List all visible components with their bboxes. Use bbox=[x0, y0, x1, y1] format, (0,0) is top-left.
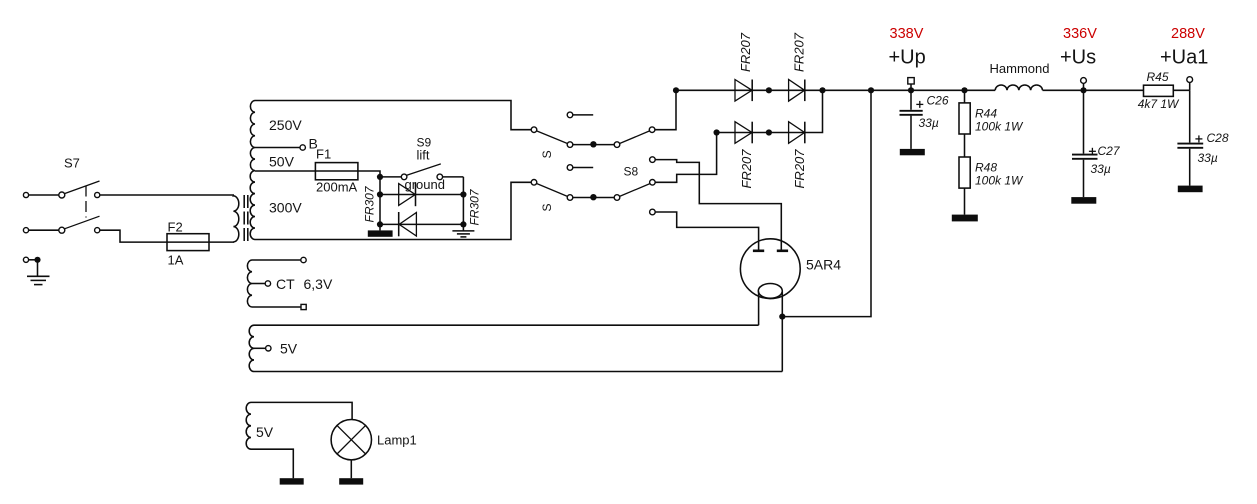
wire 5V winding bottom bbox=[254, 371, 782, 373]
tube 5AR4 filament bbox=[758, 284, 782, 299]
mains earth terminal bbox=[23, 257, 40, 263]
fuse F1 bbox=[315, 147, 358, 195]
switch S8 contact 2 and wire to rectifier row2 bbox=[650, 133, 717, 186]
wire lamp winding top to lamp bbox=[251, 402, 352, 419]
svg-text:+Us: +Us bbox=[1060, 47, 1096, 69]
svg-text:FR207: FR207 bbox=[738, 32, 753, 72]
svg-text:S: S bbox=[540, 150, 554, 158]
wire secondary top to selector bbox=[255, 101, 531, 130]
chassis ground bar (lamp) bbox=[339, 478, 363, 484]
selector switch upper bbox=[531, 112, 655, 147]
svg-text:Lamp1: Lamp1 bbox=[377, 433, 417, 448]
svg-text:338V: 338V bbox=[890, 26, 924, 42]
switch S7 pole 1 bbox=[23, 181, 99, 198]
wire upper selector to rectifier row1 bbox=[655, 90, 676, 129]
wire lamp winding bottom to chassis ground bbox=[251, 449, 293, 478]
resistor R45 bbox=[1138, 70, 1180, 111]
svg-text:100k 1W: 100k 1W bbox=[975, 119, 1024, 133]
lift network left rail bbox=[377, 174, 383, 231]
diode FR207 D3 bbox=[735, 122, 752, 144]
rail choke to R45 bbox=[1043, 89, 1144, 91]
terminal +Us (round) bbox=[1081, 78, 1087, 91]
wire S7 pole2 to fuse F2 bbox=[100, 230, 167, 242]
chassis ground bar (C26) bbox=[900, 149, 925, 155]
rectifier row2 rail bbox=[717, 90, 823, 132]
wire filament right / output node bbox=[779, 90, 871, 371]
svg-text:R44: R44 bbox=[975, 106, 997, 120]
switch S7 mechanical link (dashed) bbox=[85, 186, 87, 218]
node R44 bbox=[961, 87, 967, 93]
wire 6.3V top terminal bbox=[252, 257, 306, 262]
earth ground symbol (lift network) bbox=[452, 231, 474, 237]
node rectifier row2 input bbox=[714, 129, 720, 135]
selector switch lower bbox=[531, 165, 650, 201]
resistor R48 bbox=[959, 157, 1024, 188]
tap 5V bbox=[254, 341, 298, 357]
svg-text:33µ: 33µ bbox=[1091, 162, 1111, 176]
svg-text:R45: R45 bbox=[1147, 70, 1169, 84]
svg-text:FR307: FR307 bbox=[467, 188, 481, 225]
terminal +Up (square) bbox=[908, 78, 914, 91]
chassis ground bar (C28) bbox=[1178, 186, 1203, 193]
transformer 6.3V winding bbox=[247, 260, 252, 307]
wire secondary bottom to selector bbox=[255, 182, 531, 239]
tube 5AR4 left plate bbox=[753, 250, 764, 253]
svg-text:S: S bbox=[540, 203, 554, 211]
svg-text:33µ: 33µ bbox=[919, 116, 939, 130]
node tube output to rail bbox=[868, 87, 874, 93]
svg-text:6,3V: 6,3V bbox=[304, 276, 333, 292]
lamp Lamp1 bbox=[331, 420, 417, 460]
switch S7 pole 2 bbox=[23, 216, 99, 233]
terminal +Ua1 (round) bbox=[1187, 77, 1193, 91]
tap B bbox=[255, 136, 318, 152]
svg-text:lift: lift bbox=[417, 147, 430, 162]
chassis ground bar (C27) bbox=[1071, 197, 1096, 204]
svg-text:R48: R48 bbox=[975, 161, 997, 175]
transformer 5V winding (rectifier heater) bbox=[249, 325, 254, 371]
svg-text:5V: 5V bbox=[280, 341, 298, 357]
svg-text:C26: C26 bbox=[927, 94, 949, 108]
svg-text:+Up: +Up bbox=[889, 47, 926, 69]
rectifier row1 rail bbox=[676, 89, 995, 91]
inductor Hammond choke bbox=[995, 85, 1042, 90]
svg-text:C27: C27 bbox=[1098, 144, 1121, 158]
tube 5AR4 right plate bbox=[777, 250, 788, 253]
wire 5V winding top bbox=[254, 324, 759, 326]
chassis ground bar (lamp winding) bbox=[280, 478, 304, 484]
wire R48 to ground bbox=[964, 188, 966, 215]
svg-text:C28: C28 bbox=[1207, 131, 1229, 145]
svg-text:250V: 250V bbox=[269, 117, 302, 133]
capacitor C28 bbox=[1177, 90, 1228, 185]
svg-text:300V: 300V bbox=[269, 200, 302, 216]
capacitor C27 bbox=[1072, 90, 1121, 197]
node C26 bbox=[908, 87, 914, 93]
diode FR307 lower (anode right) bbox=[380, 212, 463, 236]
svg-text:FR307: FR307 bbox=[363, 185, 377, 222]
svg-text:100k 1W: 100k 1W bbox=[975, 173, 1024, 187]
wire 50V tap to fuse F1 and lift network bbox=[255, 171, 380, 177]
chassis ground bar (lift network) bbox=[368, 230, 393, 236]
rectifier tube 5AR4 envelope bbox=[740, 239, 800, 299]
svg-text:33µ: 33µ bbox=[1198, 151, 1218, 165]
svg-text:5AR4: 5AR4 bbox=[806, 257, 841, 273]
wire lamp to chassis ground bbox=[350, 460, 352, 478]
wire 6.3V bottom terminal (square) bbox=[252, 304, 306, 309]
svg-text:FR207: FR207 bbox=[739, 149, 754, 189]
resistor R44 bbox=[959, 90, 1024, 134]
svg-text:FR207: FR207 bbox=[792, 32, 807, 72]
node rectifier row1 input bbox=[673, 87, 679, 93]
switch S9 bbox=[380, 135, 463, 192]
transformer primary winding bbox=[233, 195, 238, 242]
svg-text:50V: 50V bbox=[269, 154, 295, 170]
fuse F2 bbox=[167, 220, 234, 268]
svg-text:CT: CT bbox=[276, 276, 295, 292]
diode FR207 D1 bbox=[735, 80, 752, 102]
svg-text:S8: S8 bbox=[624, 164, 639, 178]
wire R44 to R48 bbox=[964, 134, 966, 157]
tap CT bbox=[252, 276, 295, 292]
lift network right rail bbox=[460, 177, 466, 231]
node between D1 D2 bbox=[766, 87, 772, 93]
diode FR207 D2 bbox=[789, 80, 805, 102]
node between D3 D4 bbox=[766, 129, 772, 135]
svg-text:4k7 1W: 4k7 1W bbox=[1138, 97, 1180, 111]
svg-text:200mA: 200mA bbox=[316, 179, 358, 194]
transformer secondary winding (250V/50V/300V) bbox=[250, 101, 255, 240]
svg-text:+Ua1: +Ua1 bbox=[1160, 47, 1208, 69]
diode FR307 upper (anode left) bbox=[380, 183, 463, 207]
switch S8 contact 1 and wire to tube right plate bbox=[650, 157, 782, 250]
wire filament left to 5V winding top bbox=[758, 292, 760, 326]
svg-text:288V: 288V bbox=[1171, 26, 1205, 42]
svg-text:Hammond: Hammond bbox=[990, 61, 1050, 76]
svg-text:F1: F1 bbox=[316, 147, 331, 162]
earth ground symbol bbox=[27, 260, 50, 285]
rail R45 to +Ua1 bbox=[1173, 89, 1189, 91]
switch S8 contact 3 and wire to tube left plate bbox=[650, 209, 759, 250]
transformer core bbox=[244, 195, 248, 242]
svg-text:1A: 1A bbox=[168, 253, 184, 268]
capacitor C26 bbox=[900, 90, 949, 149]
svg-text:5V: 5V bbox=[256, 424, 274, 440]
chassis ground bar (R48) bbox=[952, 215, 978, 222]
svg-text:336V: 336V bbox=[1063, 26, 1097, 42]
wire S7 pole1 to transformer primary top bbox=[100, 194, 234, 196]
transformer 5V lamp winding bbox=[246, 402, 251, 449]
diode FR207 D4 bbox=[789, 122, 805, 144]
svg-text:FR207: FR207 bbox=[792, 149, 807, 189]
node +Us / C27 bbox=[1080, 87, 1086, 93]
svg-text:F2: F2 bbox=[168, 220, 183, 235]
svg-text:S7: S7 bbox=[64, 156, 80, 171]
node rectifier output join bbox=[819, 87, 825, 93]
svg-text:ground: ground bbox=[405, 177, 445, 192]
